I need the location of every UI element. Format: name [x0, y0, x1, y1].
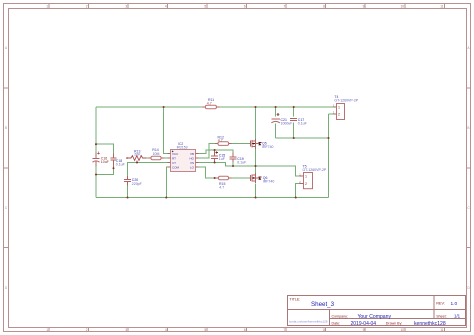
- wire T4 pin2 down right side: [328, 114, 330, 198]
- svg-text:CT: CT: [172, 161, 176, 165]
- svg-text:9: 9: [363, 328, 365, 332]
- frame ticks left: [4, 88, 9, 248]
- junction T5 pin2 on bottom rail: [295, 196, 297, 198]
- svg-text:1: 1: [46, 4, 48, 8]
- svg-text:4: 4: [165, 328, 167, 332]
- resistor R12: [215, 136, 232, 146]
- wire C18 branch bottom: [96, 165, 114, 175]
- svg-text:5: 5: [204, 4, 206, 8]
- svg-text:VCC: VCC: [172, 152, 179, 156]
- svg-text:lceda.cn/user/kennethkc128: lceda.cn/user/kennethkc128: [289, 319, 328, 323]
- svg-text:REV:: REV:: [436, 302, 445, 306]
- svg-text:1/1: 1/1: [454, 314, 461, 319]
- wire LO to R15: [198, 167, 214, 178]
- svg-text:8: 8: [323, 4, 325, 8]
- capacitor C18: [110, 154, 124, 170]
- junction T4 pin2 riser: [327, 137, 329, 139]
- svg-text:Your Company: Your Company: [358, 314, 392, 320]
- svg-text:1: 1: [46, 328, 48, 332]
- transistor Q5: [250, 139, 274, 149]
- IC2 pin names: [172, 152, 195, 170]
- connector T4: [333, 95, 359, 120]
- transistor Q6: [250, 173, 275, 183]
- wire VS run: [198, 163, 299, 176]
- junction R13 R14 node to CT: [136, 161, 138, 163]
- IC2 right pin stubs: [196, 154, 199, 168]
- svg-text:11: 11: [440, 328, 444, 332]
- svg-text:COM: COM: [172, 165, 180, 169]
- svg-text:3: 3: [125, 328, 127, 332]
- wire Q6 source: [255, 183, 257, 197]
- svg-text:VS: VS: [190, 161, 194, 165]
- svg-text:10M: 10M: [153, 152, 160, 156]
- svg-text:0.1uF: 0.1uF: [237, 161, 246, 165]
- svg-text:11: 11: [440, 4, 444, 8]
- svg-text:2: 2: [86, 328, 88, 332]
- wire COM down: [166, 167, 167, 198]
- junction C20 on bottom rail: [126, 196, 128, 198]
- frame ticks right: [467, 88, 471, 248]
- svg-text:HO: HO: [190, 156, 195, 160]
- svg-text:220pF: 220pF: [132, 182, 142, 186]
- svg-text:7: 7: [284, 4, 286, 8]
- svg-text:2019-04-04: 2019-04-04: [351, 321, 377, 327]
- svg-text:1000uF: 1000uF: [281, 122, 293, 126]
- wire C21 C17 bottom join: [276, 137, 329, 139]
- wire C19 bottom: [232, 162, 234, 166]
- junction C21 on top rail: [275, 106, 277, 108]
- wire C17 vertical: [293, 107, 295, 117]
- wire C21 lower: [275, 124, 277, 139]
- wire top rail left of R11: [96, 106, 205, 108]
- svg-text:IRF740: IRF740: [263, 180, 275, 184]
- frame ticks bottom: [49, 328, 445, 332]
- capacitor C19: [230, 153, 247, 165]
- wire left rail lower: [95, 167, 97, 198]
- svg-text:IR2153: IR2153: [177, 145, 188, 149]
- wire CT run: [128, 163, 168, 177]
- wire top rail right of R11: [217, 106, 334, 108]
- wire HO up to R12: [198, 144, 215, 158]
- svg-text:4.7: 4.7: [219, 185, 224, 189]
- junction C15 top on VB run: [214, 149, 216, 151]
- svg-text:10: 10: [400, 328, 404, 332]
- wire R15 to Q6 gate: [232, 177, 250, 179]
- frame ticks top: [49, 4, 445, 9]
- junction C17 on top rail: [293, 106, 295, 108]
- resistor R14: [148, 148, 164, 160]
- IC2 left pin stubs: [168, 154, 171, 168]
- capacitor C16: [93, 152, 109, 167]
- frame row letters: [5, 46, 471, 290]
- junction C17 bottom: [293, 137, 295, 139]
- wire R12 to Q5 gate: [232, 143, 250, 145]
- svg-text:Date:: Date:: [332, 322, 341, 326]
- svg-text:4.7: 4.7: [207, 101, 212, 105]
- junction Q5 drain on top rail: [254, 106, 256, 108]
- svg-text:9: 9: [363, 4, 365, 8]
- svg-text:6: 6: [244, 328, 246, 332]
- wire VCC drop: [164, 107, 168, 154]
- junction C15 bottom on VS wire: [214, 161, 216, 163]
- svg-text:1: 1: [305, 175, 307, 179]
- wire left rail: [95, 107, 97, 153]
- wire C21 vertical: [275, 107, 277, 117]
- resistor R13: [126, 149, 148, 162]
- junction C18 branch top on left rail: [95, 143, 97, 145]
- svg-text:1: 1: [338, 106, 340, 110]
- svg-text:4: 4: [165, 4, 167, 8]
- svg-text:GT-1260VP-2P: GT-1260VP-2P: [334, 99, 358, 103]
- junction C19 bottom on VS run: [232, 165, 234, 167]
- wire T4 pin2 stub run: [329, 113, 335, 115]
- svg-text:0.1uF: 0.1uF: [116, 162, 125, 166]
- svg-text:Sheet_3: Sheet_3: [311, 301, 335, 308]
- capacitor C21: [271, 113, 292, 125]
- junction C18 branch bottom on left rail: [95, 173, 97, 175]
- capacitor C17: [290, 118, 307, 126]
- svg-text:6: 6: [244, 4, 246, 8]
- svg-text:1.0: 1.0: [451, 301, 458, 307]
- svg-text:RT: RT: [172, 156, 176, 160]
- svg-text:IRF740: IRF740: [262, 145, 274, 149]
- svg-text:4.7: 4.7: [218, 139, 223, 143]
- junction Q6 source on bottom rail: [254, 196, 256, 198]
- svg-text:LO: LO: [190, 165, 195, 169]
- wire C20 bottom: [127, 186, 129, 198]
- svg-text:Company:: Company:: [332, 314, 348, 318]
- svg-text:B: B: [467, 126, 469, 130]
- wire VB to bootstrap: [198, 150, 233, 154]
- svg-text:10uF: 10uF: [101, 160, 109, 164]
- svg-text:B: B: [5, 126, 7, 130]
- svg-text:2: 2: [338, 113, 340, 117]
- wire Q5 drain: [255, 107, 257, 139]
- wire C18 branch top: [96, 144, 114, 153]
- connector T5: [299, 165, 327, 189]
- svg-text:20K: 20K: [134, 153, 141, 157]
- wire T5 pin2: [296, 184, 300, 198]
- junction COM on bottom rail: [165, 196, 167, 198]
- svg-text:TITLE:: TITLE:: [290, 298, 301, 302]
- svg-text:8: 8: [323, 328, 325, 332]
- svg-text:2: 2: [305, 182, 307, 186]
- svg-text:Sheet:: Sheet:: [436, 314, 446, 318]
- junction half-bridge mid node: [254, 165, 256, 167]
- svg-text:VB: VB: [190, 152, 194, 156]
- svg-text:7: 7: [284, 328, 286, 332]
- resistor R11: [203, 98, 220, 109]
- svg-text:5: 5: [204, 328, 206, 332]
- svg-text:2: 2: [86, 4, 88, 8]
- svg-text:1uF: 1uF: [219, 157, 225, 161]
- svg-text:3: 3: [125, 4, 127, 8]
- svg-text:0.1uF: 0.1uF: [298, 121, 307, 125]
- wire R14 to RT: [165, 157, 168, 159]
- wire Q5 source to Q6 drain: [255, 149, 257, 175]
- svg-text:GT-1260VP-2P: GT-1260VP-2P: [303, 168, 327, 172]
- junction VCC branch on top rail: [163, 106, 165, 108]
- svg-text:Drawn By:: Drawn By:: [386, 322, 403, 326]
- svg-text:10: 10: [400, 4, 404, 8]
- resistor R15: [214, 176, 232, 189]
- op-amp IC2 IR2153 body: [171, 142, 196, 172]
- svg-text:kennethkc128: kennethkc128: [414, 321, 446, 327]
- capacitor C15: [211, 150, 225, 163]
- wire C17 lower: [293, 123, 295, 139]
- wire bottom rail: [96, 197, 329, 199]
- capacitor C20: [124, 176, 142, 186]
